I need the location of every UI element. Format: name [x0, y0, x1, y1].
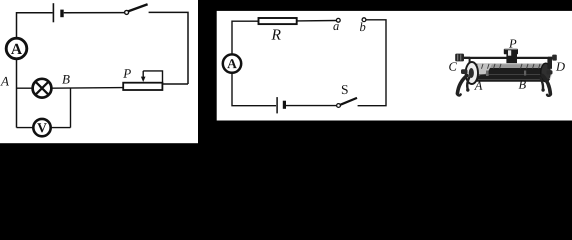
- rheostat photo: left bracket: [469, 58, 471, 64]
- wire: slider step to right wire: [143, 71, 188, 84]
- rheostat photo: slider bar rod: [457, 57, 557, 58]
- svg-text:A: A: [11, 41, 23, 58]
- resistor R (middle circuit): [259, 18, 297, 24]
- terminal a: [336, 18, 340, 22]
- wire: ammeter down to node A and on to bottom row: [16, 59, 18, 128]
- wire: resistor to terminal a: [297, 20, 337, 22]
- svg-text:V: V: [37, 120, 47, 135]
- battery B2 (middle circuit): [277, 97, 284, 113]
- svg-text:B: B: [62, 72, 70, 87]
- rheostat photo: left rod end nut: [455, 54, 464, 62]
- svg-text:P: P: [508, 37, 517, 51]
- rheostat photo: left leg: [457, 76, 469, 96]
- wire: left circuit top-left segment: [17, 13, 53, 38]
- wire: node B down to voltmeter row: [70, 88, 72, 127]
- wire: terminal b to right side down: [358, 20, 386, 106]
- rheostat photo: right end cap: [541, 63, 551, 82]
- ammeter A1 (left circuit): [6, 38, 27, 59]
- rheostat photo: right leg: [541, 76, 551, 96]
- svg-text:B: B: [518, 78, 526, 92]
- voltmeter V1: [33, 119, 50, 136]
- rheostat photo: slider knob P: [504, 49, 518, 64]
- svg-text:a: a: [333, 19, 339, 33]
- svg-text:D: D: [555, 60, 565, 74]
- svg-text:C: C: [448, 60, 457, 74]
- wire: node A to lamp: [17, 87, 33, 89]
- wire: battery to bottom-left corner up to ammeter: [232, 73, 276, 106]
- svg-text:b: b: [359, 20, 365, 34]
- svg-text:A: A: [0, 73, 9, 88]
- wire: switch to battery: [286, 105, 337, 107]
- wire: battery to switch: [64, 12, 125, 14]
- svg-text:S: S: [341, 82, 349, 97]
- rheostat R1 body (left circuit): [123, 83, 162, 90]
- wire: lamp through node B to rheostat: [52, 87, 124, 90]
- battery B1 (left circuit): [53, 3, 62, 22]
- wire: node A branch down to voltmeter: [17, 127, 34, 129]
- wire: middle circuit top-left corner to resistor: [232, 21, 259, 63]
- rheostat photo: right bracket and rod cap: [547, 55, 557, 75]
- wire: voltmeter to node B branch: [51, 127, 71, 129]
- svg-text:R: R: [270, 27, 281, 44]
- wire: switch to top-right corner down right side: [149, 12, 188, 84]
- switch S1 (left circuit, open): [125, 4, 148, 14]
- lamp L1 (circle with X): [33, 79, 52, 98]
- svg-text:A: A: [474, 79, 483, 93]
- ammeter A2 (middle circuit): [223, 54, 241, 72]
- rheostat photo: left end cap: [461, 62, 478, 84]
- terminal b: [362, 18, 366, 22]
- rheostat slider arrow P: [141, 71, 146, 82]
- svg-text:A: A: [227, 56, 237, 71]
- switch S (middle circuit, open) lever: [337, 98, 357, 108]
- svg-text:P: P: [122, 66, 131, 81]
- rheostat photo: cylinder body: [471, 63, 547, 81]
